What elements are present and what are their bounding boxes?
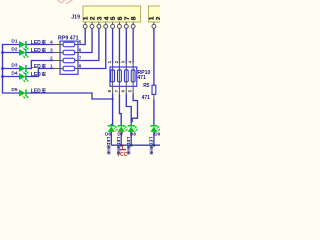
- LED diode D3: [19, 65, 28, 74]
- svg-text:8: 8: [131, 16, 138, 20]
- R5 bottom stub: [153, 94, 155, 99]
- RP9 element 1: [63, 42, 75, 47]
- connector J20 body (clipped at right edge): [148, 6, 162, 22]
- J19 pin 5 circle: [111, 24, 115, 28]
- LED diode D7: [118, 126, 128, 132]
- J19 pin 1 stub: [84, 22, 86, 25]
- svg-text:3: 3: [50, 47, 53, 52]
- junction on bus at D2: [1, 51, 4, 54]
- RP9 pin 5 stub: [75, 44, 81, 46]
- svg-text:2: 2: [156, 16, 161, 20]
- RP9 pin 2 stub: [54, 60, 63, 62]
- svg-text:D3: D3: [11, 63, 17, 69]
- svg-text:4: 4: [128, 60, 133, 63]
- svg-text:LED: LED: [31, 72, 41, 78]
- svg-text:LED: LED: [31, 48, 41, 54]
- LED diode D4: [19, 73, 28, 82]
- RP10 pin 4 stub: [132, 64, 134, 70]
- J19 pin 5 stub: [112, 22, 114, 25]
- J19 pin 4 stub: [105, 22, 107, 25]
- svg-text:1: 1: [50, 63, 53, 68]
- wire J19 pin 3 to RP9 pin 7: [81, 28, 99, 60]
- svg-text:5: 5: [79, 39, 82, 44]
- wire D4 cathode to RP9 pin 1: [26, 69, 53, 77]
- svg-text:1: 1: [107, 60, 112, 63]
- wire bus to D3: [2, 68, 19, 70]
- LED diode D6: [108, 126, 118, 132]
- RP9 pin 6 stub: [75, 52, 81, 54]
- wire J19 pin 5 to RP10 pin 1: [112, 28, 114, 63]
- svg-text:7: 7: [79, 55, 82, 60]
- RP9 element 4: [63, 66, 75, 71]
- J19 pin 2 stub: [91, 22, 93, 25]
- svg-text:6: 6: [79, 47, 82, 52]
- wire D6 to VCC bus: [110, 132, 112, 145]
- junction on bus at D3: [1, 67, 4, 70]
- LED diode D9: [150, 126, 160, 132]
- LED diode D2: [19, 49, 28, 58]
- wire RP10 pin 8 to D8 (outer loop): [131, 93, 137, 121]
- RP9 pin 1 stub: [54, 68, 63, 70]
- RP10 element 1: [111, 70, 115, 82]
- junction bus D8: [130, 144, 133, 147]
- svg-text:D2: D2: [11, 47, 17, 53]
- RP10 element 3 pin line: [125, 70, 127, 82]
- svg-text:LED: LED: [31, 64, 41, 70]
- RP9 element 3: [63, 58, 75, 63]
- wire D7 to VCC bus: [120, 132, 122, 145]
- J19 pin 4 circle: [104, 24, 108, 28]
- pink cross mark (sheet wires, clipped): [57, 0, 73, 4]
- svg-text:VCC: VCC: [117, 152, 128, 158]
- wire bus to D2: [2, 52, 19, 54]
- J19 pin 8 stub: [132, 22, 134, 25]
- wire RP10 pin 7 to D8: [126, 93, 131, 125]
- svg-text:3: 3: [121, 60, 126, 63]
- svg-text:5: 5: [128, 89, 133, 92]
- wire J19 pin 2 to RP9 pin 6: [81, 28, 93, 52]
- resistor pack RP10 body: [110, 67, 137, 86]
- wire D1 cathode to RP9 pin 4: [26, 44, 53, 46]
- J20 pin 1 circle: [152, 24, 156, 28]
- wire J19 pin 8 to RP10 pin 4: [132, 28, 134, 63]
- wire RP10 pin 5 to D6: [111, 93, 112, 125]
- RP10 pin 1 stub: [112, 64, 114, 70]
- J19 pin 1 circle: [83, 24, 87, 28]
- svg-text:2: 2: [50, 55, 53, 60]
- J19 pin 3 stub: [98, 22, 100, 25]
- RP9 pin 3 stub: [54, 52, 63, 54]
- wire RP10 pin 6 to D7: [119, 93, 121, 125]
- svg-text:4: 4: [50, 39, 53, 44]
- RP9 pin 8 stub: [75, 68, 81, 70]
- svg-text:D1: D1: [11, 39, 17, 45]
- RP10 element 2: [118, 70, 122, 82]
- wire J19 pin 7 to RP10 pin 3: [125, 28, 127, 63]
- svg-text:2: 2: [114, 60, 119, 63]
- wire D3 cathode to RP9 pin 2: [26, 61, 53, 69]
- svg-text:D4: D4: [11, 71, 17, 77]
- power symbol VCC: [119, 145, 126, 149]
- J19 pin 7 circle: [124, 24, 128, 28]
- LED diode D5: [19, 90, 28, 99]
- RP10 pin 3 stub: [125, 64, 127, 70]
- wire D9 to VCC bus: [153, 132, 155, 145]
- svg-text:6: 6: [121, 89, 126, 92]
- RP10 element 3: [124, 70, 128, 82]
- J19 pin 3 circle: [97, 24, 101, 28]
- junction on bus at D4: [1, 75, 4, 78]
- J19 pin 6 circle: [118, 24, 122, 28]
- wire D2 cathode to RP9 pin 3: [26, 52, 53, 54]
- RP10 element 1 pin line: [112, 70, 114, 82]
- connector J19 body: [83, 6, 141, 22]
- wire bus to D4: [2, 76, 19, 78]
- wire R5 to D9: [153, 99, 155, 126]
- RP10 pin 6 stub: [125, 82, 127, 93]
- RP9 pin 7 stub: [75, 60, 81, 62]
- RP9 pin 4 stub: [54, 44, 63, 46]
- J19 pin 7 stub: [125, 22, 127, 25]
- svg-text:D5: D5: [11, 87, 17, 93]
- J19 pin 6 stub: [118, 22, 120, 25]
- wire J19 pin 1 to RP9 pin 5: [81, 28, 86, 44]
- svg-text:7: 7: [114, 89, 119, 92]
- RP10 element 2 pin line: [118, 70, 120, 82]
- wire J19 pin 4 to RP9 pin 8: [81, 28, 106, 68]
- RP10 element 4 pin line: [132, 70, 134, 82]
- svg-text:471: 471: [142, 95, 151, 101]
- LED diode D8: [128, 126, 138, 132]
- wire J20 pin1 down: [153, 28, 155, 85]
- svg-text:8: 8: [107, 89, 112, 92]
- svg-text:471: 471: [137, 75, 146, 81]
- svg-text:8: 8: [79, 63, 82, 68]
- wire D8 to VCC bus: [130, 132, 132, 145]
- J19 pin 2 circle: [90, 24, 94, 28]
- RP10 pin 7 stub: [118, 82, 120, 93]
- svg-text:D9: D9: [154, 131, 160, 136]
- J19 pin 8 circle: [131, 24, 135, 28]
- RP10 pin 8 stub: [112, 82, 114, 93]
- svg-text:R5: R5: [143, 83, 150, 89]
- LED diode D1: [19, 41, 28, 50]
- wire bus to D1: [2, 44, 19, 46]
- junction bus D9: [153, 144, 156, 147]
- junction bus D7: [120, 144, 123, 147]
- wire left anode bus: [2, 44, 4, 93]
- resistor pack RP9 body: [60, 41, 78, 74]
- J20 pin 1 stub: [153, 22, 155, 25]
- RP9 element 2: [63, 50, 75, 55]
- svg-text:LED: LED: [106, 137, 111, 147]
- RP10 element 4: [131, 70, 135, 82]
- svg-text:LED: LED: [31, 89, 41, 95]
- wire VCC bus: [111, 144, 161, 146]
- wire bus to D5: [2, 92, 19, 94]
- svg-text:LED: LED: [31, 40, 41, 46]
- svg-text:J19: J19: [71, 15, 80, 21]
- RP10 pin 5 stub: [132, 82, 134, 93]
- resistor R5 body: [152, 85, 156, 94]
- RP10 pin 2 stub: [118, 64, 120, 70]
- wire J19 pin 6 to RP10 pin 2: [118, 28, 120, 63]
- junction D5 wire with RP10 pin 5 line: [111, 98, 113, 100]
- wire D5 cathode to node under RP10 pin 5: [26, 93, 112, 99]
